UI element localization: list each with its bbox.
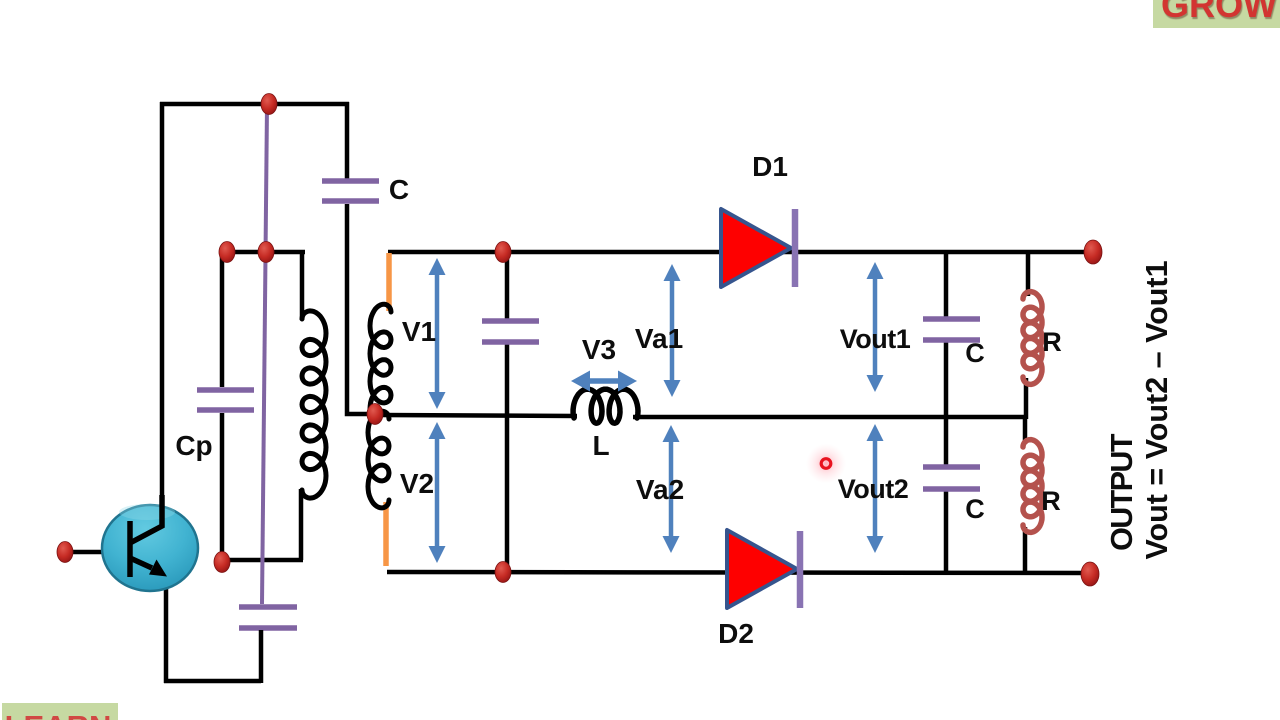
emitter capacitor plates	[239, 604, 297, 610]
wire Cp branch upper	[220, 250, 225, 387]
transistor base bar	[127, 521, 133, 577]
node output terminal top	[1084, 240, 1102, 264]
filter capacitor C bottom plates	[923, 464, 980, 470]
filter cap bottom wire	[944, 415, 949, 466]
wire y=252 left segment	[220, 250, 305, 255]
wire left vertical (collector branch)	[160, 102, 165, 528]
svg-text:L: L	[592, 430, 609, 461]
orange segment top	[386, 253, 392, 311]
D2 cathode bar	[797, 531, 804, 608]
V3 arrow	[588, 378, 620, 384]
node top-left rail	[261, 94, 277, 115]
wire base lead	[63, 550, 130, 555]
transformer secondary winding V1	[370, 304, 391, 409]
svg-text:C: C	[965, 338, 985, 368]
svg-text:C: C	[965, 494, 985, 524]
wire y=560	[220, 558, 303, 563]
LEARN logo	[2, 703, 118, 720]
node base terminal	[57, 542, 73, 563]
wire primary top lead	[300, 250, 305, 320]
svg-text:V2: V2	[400, 468, 434, 499]
resistor R bottom	[1023, 440, 1042, 533]
diode D2	[727, 530, 797, 608]
laser pointer dot	[806, 444, 846, 484]
Vout1 arrow	[873, 277, 878, 377]
tank capacitor wire	[505, 250, 510, 319]
svg-text:D2: D2	[718, 618, 754, 649]
node purple top	[258, 242, 274, 263]
Vout2 arrow	[873, 439, 878, 538]
wire emitter bottom horizontal	[164, 679, 261, 684]
node Cp bottom	[214, 552, 230, 573]
transformer secondary winding V2	[368, 411, 389, 508]
top rail right	[388, 250, 1093, 255]
svg-text:GROW: GROW	[1161, 0, 1277, 25]
resistor R top	[1023, 292, 1042, 385]
svg-text:Va1: Va1	[635, 323, 683, 354]
resistor R bottom leads	[1023, 415, 1028, 444]
V2 arrow	[435, 437, 440, 548]
resistor R top leads	[1026, 250, 1031, 296]
wire Cp branch lower	[220, 413, 225, 563]
purple feedback wire	[262, 106, 267, 604]
capacitor Cp plates	[197, 387, 254, 393]
wire up to emitter capacitor	[259, 630, 264, 683]
wire from top rail down to capacitor C	[345, 102, 350, 179]
transistor emitter stroke with arrow	[130, 558, 152, 568]
svg-text:OUTPUT: OUTPUT	[1105, 433, 1139, 551]
wire from C down to centre tap	[347, 204, 372, 414]
V1 arrow	[435, 273, 440, 394]
wire primary bottom lead	[299, 489, 304, 560]
node secondary top rail	[495, 242, 511, 263]
transformer primary winding	[302, 311, 326, 498]
wire top-left rail	[160, 102, 349, 107]
svg-text:D1: D1	[752, 151, 788, 182]
wire emitter down	[164, 571, 169, 683]
middle rail (centre tap)	[375, 415, 577, 416]
node output terminal bottom	[1081, 562, 1099, 586]
svg-text:Cp: Cp	[175, 430, 212, 461]
svg-text:Vout1: Vout1	[840, 324, 911, 354]
orange segment bottom	[383, 502, 389, 566]
svg-text:Vout2: Vout2	[838, 474, 909, 504]
transistor Q1 body	[102, 505, 198, 591]
svg-text:R: R	[1042, 327, 1062, 357]
D1 cathode bar	[792, 209, 799, 287]
node centre tap	[367, 404, 383, 425]
node bottom rail	[495, 562, 511, 583]
transistor collector stroke	[130, 495, 162, 543]
capacitor C plates	[322, 178, 379, 184]
filter capacitor C top plates	[923, 316, 980, 322]
bottom rail	[387, 572, 1091, 573]
svg-text:LEARN: LEARN	[5, 709, 112, 720]
svg-text:V3: V3	[582, 334, 616, 365]
tank capacitor plates	[482, 318, 539, 324]
svg-text:C: C	[389, 174, 409, 205]
inductor L	[573, 389, 638, 423]
svg-text:R: R	[1041, 486, 1061, 516]
Va1 arrow	[670, 279, 675, 382]
GROW logo	[1153, 0, 1280, 28]
svg-text:Vout = Vout2 – Vout1: Vout = Vout2 – Vout1	[1140, 260, 1174, 559]
diode D1	[721, 209, 791, 287]
node Cp top	[219, 242, 235, 263]
filter cap top wire	[944, 250, 949, 317]
svg-text:Va2: Va2	[636, 474, 684, 505]
svg-text:V1: V1	[402, 316, 436, 347]
Va2 arrow	[669, 440, 674, 538]
